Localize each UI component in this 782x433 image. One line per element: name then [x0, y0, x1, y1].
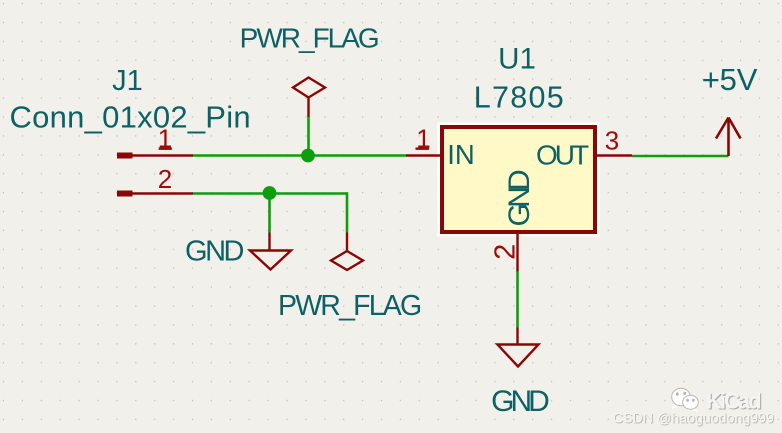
- connector J1 pin 1 stub: [117, 153, 193, 159]
- svg-text:CSDN @haoguodong999: CSDN @haoguodong999: [613, 410, 774, 426]
- svg-text:2: 2: [158, 164, 172, 194]
- U1 pin 2 (GND, bottom): [516, 234, 518, 272]
- connector J1 pin 2 stub: [117, 191, 193, 197]
- junction node on wire2: [263, 186, 277, 200]
- svg-text:OUT: OUT: [536, 140, 589, 171]
- svg-text:3: 3: [605, 126, 619, 156]
- svg-text:Conn_01x02_Pin: Conn_01x02_Pin: [10, 100, 251, 135]
- svg-text:GND: GND: [185, 236, 244, 268]
- power flag PWR_FLAG (top) symbol: [293, 78, 325, 118]
- wire: J1 pin2 horizontal: [193, 192, 347, 195]
- wire: corner down to PWR_FLAG2: [346, 192, 349, 232]
- wire: junction down to GND1: [268, 194, 271, 233]
- watermark KiCad text: [706, 389, 761, 415]
- wire: J1 pin1 to U1 IN: [193, 154, 406, 157]
- svg-text:+5V: +5V: [702, 62, 758, 97]
- svg-text:2: 2: [490, 244, 522, 260]
- regulator U1 body: [442, 127, 595, 232]
- svg-text:PWR_FLAG: PWR_FLAG: [240, 23, 378, 54]
- power flag PWR_FLAG2 symbol: [331, 233, 363, 271]
- connector J1 pin 1 number 1: [158, 124, 172, 154]
- wire: PWR_FLAG1 drop to wire1: [307, 117, 310, 156]
- watermark wechat icon: [672, 388, 699, 412]
- junction node at PWR_FLAG1 / wire1: [301, 149, 315, 163]
- svg-text:IN: IN: [447, 139, 475, 170]
- U1 pin 1 (IN): [406, 154, 442, 156]
- svg-text:U1: U1: [498, 43, 536, 76]
- ground GND2 symbol (below U1): [498, 328, 539, 367]
- svg-text:GND: GND: [491, 385, 549, 418]
- ground GND1 symbol: [250, 233, 291, 270]
- watermark CSDN text: [613, 410, 775, 427]
- svg-text:GND: GND: [503, 170, 536, 226]
- power symbol +5V: [716, 118, 741, 157]
- wire: U1 GND pin down: [516, 272, 519, 328]
- U1 pin 1 number: [416, 124, 431, 154]
- U1 pin 3 (OUT): [597, 154, 632, 156]
- svg-text:J1: J1: [112, 65, 143, 97]
- svg-text:PWR_FLAG: PWR_FLAG: [278, 290, 421, 322]
- wire: U1 OUT to +5V: [632, 155, 729, 158]
- svg-text:L7805: L7805: [474, 81, 565, 115]
